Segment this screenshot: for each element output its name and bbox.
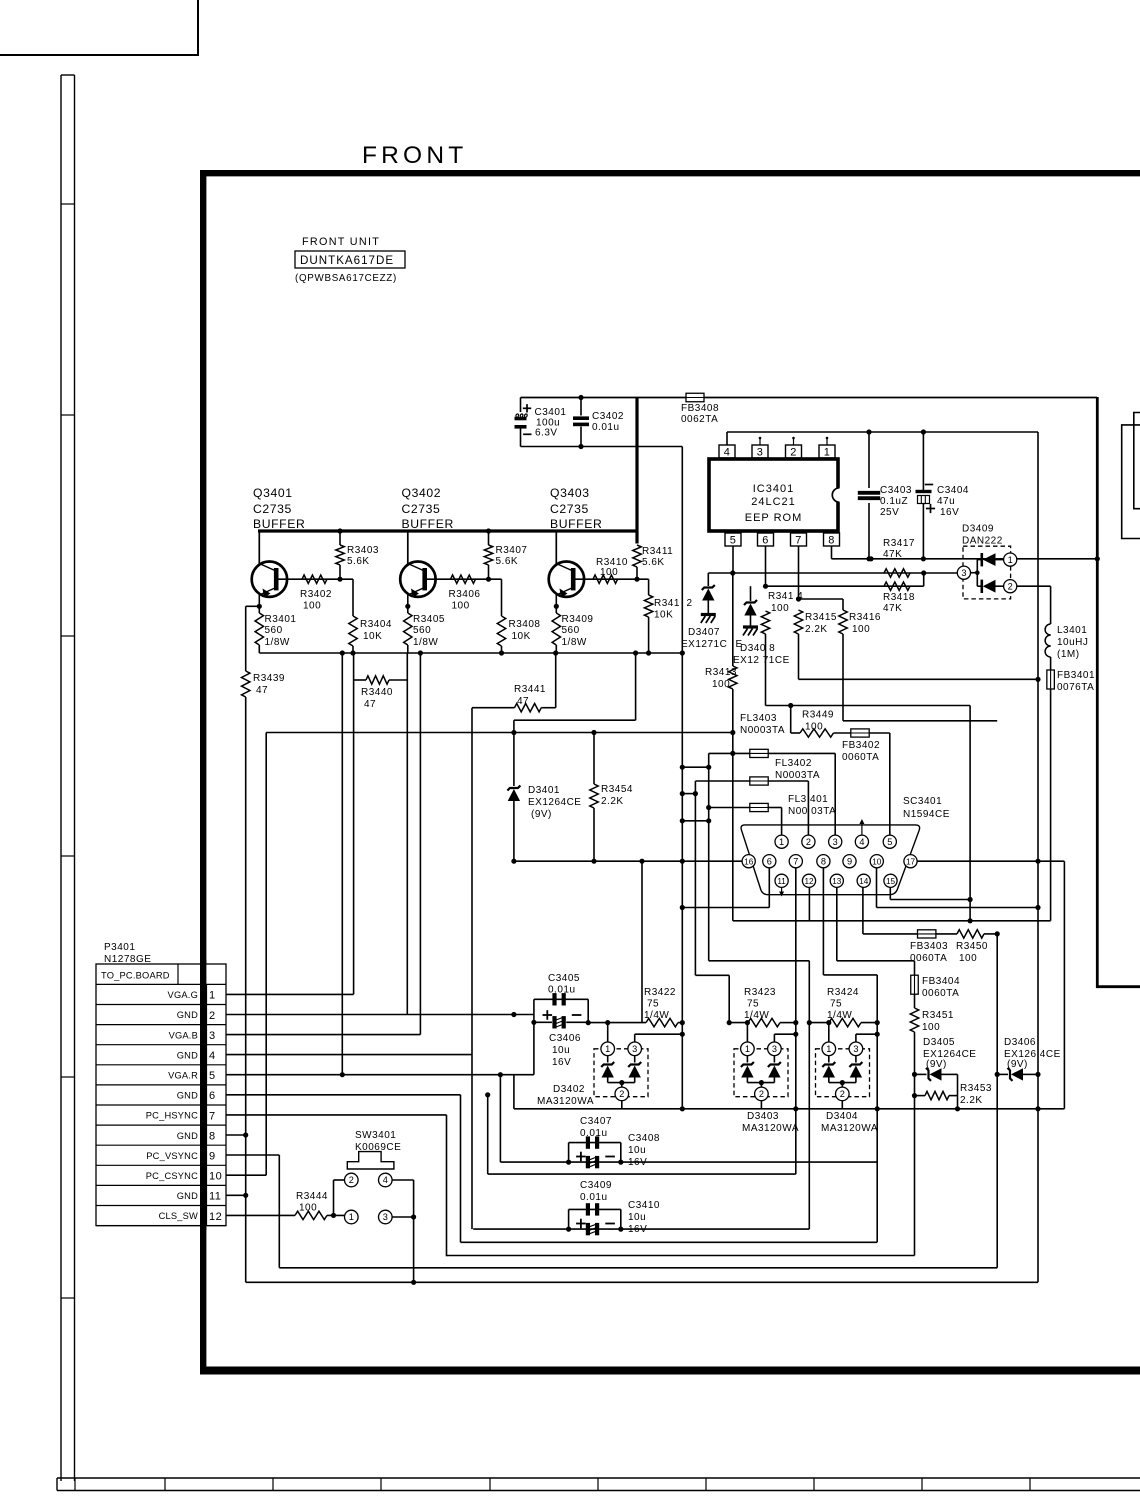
- svg-text:8: 8: [821, 856, 826, 866]
- svg-text:16: 16: [744, 857, 754, 866]
- svg-text:3: 3: [632, 1044, 637, 1054]
- wire R3422 feed x=642: [641, 861, 643, 1022]
- svg-text:CLS_SW: CLS_SW: [159, 1211, 198, 1221]
- svg-text:10K: 10K: [363, 631, 382, 642]
- wire Q3401 emitter tap left: [246, 605, 260, 607]
- wire H-sync line y=861.5 to SC pin16: [514, 860, 742, 862]
- svg-text:FL3 401: FL3 401: [788, 794, 828, 805]
- svg-text:EX12 71CE: EX12 71CE: [733, 655, 790, 666]
- svg-text:0076TA: 0076TA: [1057, 682, 1094, 693]
- wire emitter Q3401: [258, 595, 260, 613]
- SC3401 row3 pin circles 11-15: [775, 874, 788, 887]
- resistor R3402 100 (base series): [302, 575, 327, 583]
- svg-text:15: 15: [886, 877, 896, 886]
- svg-text:4: 4: [724, 447, 731, 459]
- svg-text:(9V): (9V): [1007, 1059, 1028, 1070]
- svg-text:3: 3: [209, 1030, 216, 1042]
- svg-text:C3405: C3405: [548, 973, 580, 984]
- wire ground rail y=1108.8: [514, 1108, 1065, 1110]
- svg-text:12: 12: [804, 877, 814, 886]
- bead FB3404 0060TA: [914, 961, 916, 975]
- capacitor C3403 0.1uZ 25V: [866, 429, 871, 434]
- svg-text:PC_HSYNC: PC_HSYNC: [146, 1111, 198, 1121]
- resistor R3411 5.6K on thick feed: [633, 545, 641, 567]
- wire P3401 pin9 PC_VSYNC loop: [226, 1154, 279, 1156]
- svg-text:2: 2: [790, 447, 797, 459]
- svg-text:7: 7: [795, 535, 802, 547]
- P3401 row pin 2 GND: [96, 1024, 226, 1026]
- svg-text:R3451: R3451: [922, 1010, 954, 1021]
- svg-text:0.01u: 0.01u: [580, 1128, 608, 1139]
- svg-text:9: 9: [847, 856, 852, 866]
- svg-text:D3406: D3406: [1004, 1037, 1036, 1048]
- svg-text:4: 4: [209, 1050, 216, 1062]
- svg-text:13: 13: [832, 877, 842, 886]
- filter FL3402 N0003TA: [682, 793, 695, 795]
- resistor R3408 10K: [501, 579, 503, 616]
- long vertical node x=682.3: [681, 447, 683, 1109]
- resistor R3404 10K: [352, 579, 354, 616]
- svg-text:N1278GE: N1278GE: [104, 954, 151, 965]
- svg-text:8: 8: [828, 535, 835, 547]
- svg-text:2.2K: 2.2K: [805, 624, 828, 635]
- svg-text:100: 100: [712, 679, 730, 690]
- svg-text:R3453: R3453: [960, 1083, 992, 1094]
- switch SW3401 pin2 circle: [345, 1173, 359, 1187]
- svg-text:1: 1: [209, 990, 216, 1002]
- svg-text:10: 10: [209, 1171, 222, 1183]
- svg-text:2: 2: [619, 1089, 624, 1099]
- wire common rail x=1037.7 lower: [1037, 679, 1039, 1282]
- svg-text:FRONT: FRONT: [362, 142, 467, 169]
- P3401 row pin 10 PC_CSYNC: [96, 1184, 226, 1186]
- svg-text:10: 10: [872, 857, 882, 866]
- svg-text:D3401: D3401: [528, 785, 560, 796]
- svg-text:2: 2: [1008, 581, 1013, 591]
- svg-text:GND: GND: [177, 1131, 198, 1141]
- wire P3401 pin11 GND: [226, 1194, 246, 1196]
- wire C3401/C3402 bottom to node: [521, 446, 683, 448]
- wire SC pin12 drop: [808, 887, 810, 920]
- svg-text:8: 8: [209, 1130, 216, 1142]
- capacitor pair C3409 0.01u / C3410 10u 16V: [569, 1208, 621, 1210]
- capacitor C3404 47u 16V (electrolytic): [921, 429, 926, 434]
- svg-text:0.01u: 0.01u: [592, 422, 620, 433]
- svg-text:GND: GND: [177, 1010, 198, 1020]
- resistor R3403 5.6K: [337, 528, 342, 533]
- wire IC pin8 net y=558.8: [831, 546, 833, 559]
- svg-text:R3441: R3441: [514, 684, 546, 695]
- wire emitter Q3403: [555, 595, 557, 613]
- svg-text:C3408: C3408: [628, 1133, 660, 1144]
- wire p2 vertical x=407.3: [406, 653, 408, 1015]
- P3401 row pin 4 GND: [96, 1064, 226, 1066]
- resistor R3414 100: [761, 611, 769, 634]
- wire collector drop Q3401: [258, 531, 260, 564]
- svg-text:560: 560: [413, 625, 431, 636]
- D3409 pin 3 circle: [957, 566, 970, 579]
- wire top power rail y=397: [521, 397, 1098, 399]
- wire P3401 pin12 CLS_SW to R3444: [226, 1214, 295, 1216]
- wire SC pin8 drop to y=974.9: [822, 868, 824, 975]
- svg-text:100: 100: [600, 567, 618, 578]
- svg-text:FRONT UNIT: FRONT UNIT: [302, 236, 380, 248]
- svg-text:10K: 10K: [654, 610, 673, 621]
- svg-text:7: 7: [209, 1110, 216, 1122]
- svg-text:C3403: C3403: [880, 485, 912, 496]
- svg-text:4: 4: [383, 1175, 388, 1185]
- wire D3409 pin2 to L3401: [1017, 585, 1051, 587]
- P3401 row pin 12 CLS_SW: [96, 1225, 226, 1227]
- diode array D3402 MA3120WA: [594, 1049, 648, 1097]
- svg-text:6: 6: [767, 856, 772, 866]
- svg-text:17: 17: [906, 857, 916, 866]
- svg-text:2.2K: 2.2K: [601, 796, 624, 807]
- svg-text:N0003TA: N0003TA: [740, 725, 785, 736]
- wire C3409 pair line y=1229.1: [473, 1228, 809, 1230]
- resistor R3406 100 (base series): [451, 575, 476, 583]
- svg-text:C3404: C3404: [937, 485, 969, 496]
- wire return y=1242.3: [461, 1241, 878, 1243]
- wire p1 vertical x=353.6: [353, 680, 355, 994]
- IC3401 pin 1 box: [819, 445, 835, 458]
- svg-text:2: 2: [687, 598, 693, 609]
- svg-text:3: 3: [772, 1044, 777, 1054]
- svg-text:10u: 10u: [628, 1212, 646, 1223]
- P3401 row pin 11 GND: [96, 1205, 226, 1207]
- wire P3401 pin2 GND: [226, 1014, 534, 1016]
- box DUNTKA617DE: [295, 251, 405, 268]
- svg-text:EX1264CE: EX1264CE: [528, 797, 581, 808]
- wire riser x=473.2 pin4 chain: [471, 1055, 473, 1230]
- svg-text:FB3402: FB3402: [842, 740, 880, 751]
- D3409 internal common node: [971, 572, 978, 574]
- svg-text:D3404: D3404: [826, 1111, 858, 1122]
- svg-text:11: 11: [777, 877, 786, 886]
- resistor R3439 47: [245, 606, 247, 671]
- resistor R3407 5.6K: [486, 528, 491, 533]
- svg-text:11: 11: [209, 1191, 221, 1203]
- wire P3401 pin4 GND: [226, 1054, 472, 1056]
- svg-text:D340 8: D340 8: [740, 643, 775, 654]
- wire riser x=487.7 to y=1174.1: [487, 1095, 489, 1174]
- zener diode D3401 EX1264CE (9V): [513, 733, 515, 787]
- filter FL3401 N0003TA: [682, 820, 708, 822]
- svg-text:BUFFER: BUFFER: [253, 517, 305, 531]
- wire y=920.8 line: [733, 920, 1051, 922]
- wire SC pin6 drop: [768, 868, 770, 908]
- svg-text:MA3120WA: MA3120WA: [537, 1096, 594, 1107]
- svg-text:9: 9: [209, 1150, 216, 1162]
- zener diode D3407 EX1271CE with ground: [707, 573, 709, 586]
- wire y=907.5 line left segment: [682, 907, 769, 909]
- svg-text:2: 2: [806, 837, 811, 847]
- svg-text:0060TA: 0060TA: [910, 953, 947, 964]
- diode array D3404 MA3120WA: [816, 1049, 870, 1097]
- wire base line Q3403: [576, 578, 649, 580]
- svg-text:R3449: R3449: [802, 710, 834, 721]
- svg-text:GND: GND: [177, 1191, 198, 1201]
- resistor R3401 560 1/8W: [255, 613, 263, 645]
- svg-text:100: 100: [922, 1022, 940, 1033]
- IC3401 pin 4 box: [719, 445, 735, 458]
- resistor R3424 75 1/4W: [829, 1018, 861, 1026]
- D3409 diode 1: [977, 559, 981, 561]
- svg-text:R3413: R3413: [705, 667, 737, 678]
- svg-text:0062TA: 0062TA: [681, 414, 718, 425]
- wire SW3401 pin4 to pin3 node: [392, 1179, 414, 1181]
- resistor R3415 2.2K: [794, 610, 802, 634]
- svg-text:1/4W: 1/4W: [744, 1010, 769, 1021]
- resistor R3417 47K: [884, 569, 910, 577]
- svg-text:D3403: D3403: [747, 1111, 779, 1122]
- svg-text:C2735: C2735: [550, 502, 589, 516]
- wire RGB line2 y=1022.6 cell2: [729, 1022, 748, 1024]
- svg-text:FB3401: FB3401: [1057, 670, 1095, 681]
- svg-text:1: 1: [605, 1044, 610, 1054]
- resistor R3412 10K: [648, 579, 650, 595]
- zener diode D3406 EX1264CE (9V): [997, 1073, 1008, 1075]
- P3401 row pin 7 PC_HSYNC: [96, 1124, 226, 1126]
- resistor R3444 100: [295, 1211, 327, 1219]
- svg-text:R3417: R3417: [883, 538, 915, 549]
- D3409 pin 2 circle: [1004, 580, 1017, 593]
- wire R3414 bottom rail y=705.5: [766, 705, 971, 707]
- svg-text:(1M): (1M): [1057, 649, 1080, 660]
- svg-text:6.3V: 6.3V: [535, 428, 558, 439]
- resistor R3409 560 1/8W: [552, 613, 560, 645]
- D3409 diode 2: [977, 585, 981, 587]
- diode array D3403 MA3120WA: [734, 1049, 788, 1097]
- svg-text:VGA.R: VGA.R: [168, 1070, 198, 1080]
- IC3401 pin 6 box: [758, 533, 774, 546]
- svg-text:6: 6: [209, 1090, 216, 1102]
- switch SW3401 pin1 circle: [345, 1210, 359, 1224]
- svg-text:2: 2: [840, 1089, 845, 1099]
- wire collector drop Q3403: [555, 531, 557, 564]
- wire R3422 gnd node dots: [680, 1032, 685, 1037]
- wire rail to D3401 jog: [635, 653, 637, 720]
- thick feed to buffer bus: [635, 398, 638, 544]
- svg-text:7: 7: [793, 856, 798, 866]
- svg-text:Q3401: Q3401: [253, 486, 293, 500]
- svg-text:16V: 16V: [552, 1057, 571, 1068]
- svg-text:5.6K: 5.6K: [347, 556, 370, 567]
- svg-text:5: 5: [209, 1070, 216, 1082]
- svg-text:FB3408: FB3408: [681, 403, 719, 414]
- svg-text:14: 14: [859, 877, 869, 886]
- svg-text:47K: 47K: [883, 603, 902, 614]
- svg-text:3: 3: [833, 837, 838, 847]
- transistor Q3403 symbol: [549, 562, 584, 597]
- resistor R3453 2.2K: [915, 1095, 926, 1097]
- IC3401 pin 5 box: [725, 533, 741, 546]
- SC3401 row1 pin circles 1-5: [775, 835, 788, 848]
- right-edge thick power rail corner: [1097, 397, 1140, 987]
- filter FL3403 N0003TA: [682, 766, 708, 768]
- svg-text:75: 75: [647, 999, 659, 1010]
- bottom border ruler band: [57, 1477, 1140, 1479]
- svg-text:1: 1: [824, 447, 831, 459]
- resistor R3405 560 1/8W: [404, 613, 412, 645]
- svg-text:IC3401: IC3401: [753, 483, 794, 495]
- main border thick line over table: [200, 960, 206, 1230]
- main schematic border (thick): [200, 170, 206, 1374]
- svg-text:0.1uZ: 0.1uZ: [880, 496, 908, 507]
- svg-text:75: 75: [830, 999, 842, 1010]
- SC3401 row2 pin circles 16 6 7 8 9 10 17: [742, 855, 755, 868]
- svg-text:R3405: R3405: [413, 614, 445, 625]
- svg-text:16V: 16V: [940, 507, 959, 518]
- svg-text:EEP ROM: EEP ROM: [745, 512, 803, 524]
- P3401 row pin 3 VGA.B: [96, 1044, 226, 1046]
- svg-text:GND: GND: [177, 1050, 198, 1060]
- svg-text:0.01u: 0.01u: [580, 1192, 608, 1203]
- svg-text:10u: 10u: [552, 1045, 570, 1056]
- capacitor pair C3407 0.01u / C3408 10u 16V: [569, 1142, 621, 1144]
- resistor R3454 2.2K: [593, 733, 595, 785]
- svg-text:(QPWBSA617CEZZ): (QPWBSA617CEZZ): [295, 273, 397, 284]
- svg-text:5: 5: [730, 535, 737, 547]
- SC3401 pin 4 shield tick: [861, 822, 863, 835]
- resistor R3441 47: [472, 707, 515, 709]
- svg-text:47: 47: [364, 699, 376, 710]
- bead FB3403 0060TA and resistor R3450 100: [863, 933, 917, 935]
- svg-text:Q3403: Q3403: [550, 486, 590, 500]
- svg-text:1/4W: 1/4W: [644, 1010, 669, 1021]
- D3409 pin 1 circle: [1004, 553, 1017, 566]
- wire SC pin10 drop: [876, 868, 878, 908]
- svg-text:C3402: C3402: [592, 411, 624, 422]
- svg-text:75: 75: [747, 999, 759, 1010]
- wire return y=1255.5: [447, 1255, 915, 1257]
- svg-text:R3440: R3440: [361, 687, 393, 698]
- svg-text:47K: 47K: [883, 549, 902, 560]
- wire RGB line1 y=1022.6: [588, 1022, 646, 1024]
- P3401 row pin 6 GND: [96, 1104, 226, 1106]
- svg-text:2.2K: 2.2K: [960, 1095, 983, 1106]
- wire R3415 bottom rail y=679.3: [799, 678, 1039, 680]
- resistor R3422 75 1/4W: [646, 1018, 678, 1026]
- svg-text:0060TA: 0060TA: [922, 988, 959, 999]
- svg-text:L3401: L3401: [1057, 625, 1087, 636]
- svg-text:EX1271C: EX1271C: [681, 639, 727, 650]
- svg-text:MA3120WA: MA3120WA: [821, 1123, 878, 1134]
- svg-text:C3410: C3410: [628, 1200, 660, 1211]
- svg-text:DAN222: DAN222: [962, 536, 1003, 547]
- resistor R3451 100: [910, 1008, 918, 1032]
- wire SW3401 pin3 out: [392, 1216, 414, 1218]
- wire IC pin7 drop x=798.5: [798, 546, 800, 599]
- svg-text:VGA.B: VGA.B: [169, 1030, 198, 1040]
- svg-text:C3407: C3407: [580, 1116, 612, 1127]
- svg-text:1/4W: 1/4W: [827, 1010, 852, 1021]
- svg-text:N0003TA: N0003TA: [775, 770, 820, 781]
- svg-text:N1594CE: N1594CE: [903, 809, 950, 820]
- svg-text:FL3402: FL3402: [775, 758, 812, 769]
- wire CSYNC line y=732.5 from P3401 pin10: [266, 732, 733, 734]
- svg-text:100: 100: [805, 722, 823, 733]
- left border ruler column: [60, 75, 62, 1481]
- bottom ruler tick marks: [74, 1478, 76, 1491]
- wire VCC rail y=432 to right corner: [727, 431, 1038, 433]
- svg-text:1: 1: [349, 1212, 354, 1222]
- svg-text:10K: 10K: [512, 631, 531, 642]
- svg-text:(9V): (9V): [926, 1059, 947, 1070]
- diode pack D3409 DAN222 dashed box: [963, 546, 1011, 599]
- inductor L3401 10uHJ (1M): [1045, 624, 1050, 635]
- no-connect ticks above pins 3 2 1: [759, 439, 761, 445]
- wire SW3401 pin1-pin2 link: [334, 1179, 345, 1181]
- svg-text:10u: 10u: [628, 1145, 646, 1156]
- capacitor C3401 (electrolytic 100u 6.3V): [520, 398, 522, 413]
- svg-text:3: 3: [383, 1212, 388, 1222]
- svg-text:FB3404: FB3404: [922, 976, 960, 987]
- svg-text:R3418: R3418: [883, 592, 915, 603]
- svg-text:1/8W: 1/8W: [265, 637, 290, 648]
- wire R3414 net drop x=970.1: [969, 706, 971, 921]
- wire collector drop Q3402: [407, 531, 409, 564]
- svg-text:5.6K: 5.6K: [642, 557, 665, 568]
- resistor R3440 47: [353, 653, 355, 680]
- svg-text:GND: GND: [177, 1091, 198, 1101]
- svg-text:PC_CSYNC: PC_CSYNC: [146, 1171, 198, 1181]
- svg-text:3: 3: [961, 568, 966, 578]
- resistor R3410 100 (base series): [593, 575, 618, 583]
- capacitor C3402 (0.01u): [578, 395, 583, 400]
- resistor R3413 100: [732, 573, 734, 666]
- svg-text:D3407: D3407: [688, 627, 720, 638]
- svg-text:R341: R341: [654, 598, 680, 609]
- P3401 row pin 9 PC_VSYNC: [96, 1164, 226, 1166]
- svg-text:C3409: C3409: [580, 1180, 612, 1191]
- wire P3401 pin7 PC_HSYNC loop: [226, 1114, 447, 1116]
- svg-text:R3454: R3454: [601, 784, 633, 795]
- left ruler tick marks: [61, 203, 75, 205]
- wire D3406 feed x=997.2: [996, 934, 998, 1075]
- wire R3423 feed jog: [695, 974, 729, 976]
- svg-text:R3423: R3423: [744, 987, 776, 998]
- svg-text:SC3401: SC3401: [903, 796, 942, 807]
- zener diode D3408 EX1271CE with ground: [750, 586, 752, 601]
- svg-text:R3408: R3408: [509, 619, 541, 630]
- wire SC pin14 drop to FB3403: [862, 887, 864, 934]
- switch SW3401 pin4 circle: [379, 1173, 393, 1187]
- svg-text:100: 100: [303, 601, 321, 612]
- svg-text:D3402: D3402: [553, 1084, 585, 1095]
- switch SW3401 pin3 circle: [379, 1210, 393, 1224]
- svg-text:6: 6: [762, 535, 769, 547]
- svg-text:1: 1: [779, 837, 784, 847]
- svg-text:R3406: R3406: [449, 589, 481, 600]
- wire ground rail y=653: [259, 652, 682, 654]
- wire base line Q3402: [427, 578, 502, 580]
- capacitor pair C3405 0.01u / C3406 10u 16V: [534, 998, 588, 1000]
- svg-text:5: 5: [887, 837, 892, 847]
- SC3401 pin 11 shield stub: [781, 887, 783, 893]
- IC3401 pin 3 box: [752, 445, 768, 458]
- wire y=1174.1 return: [488, 1173, 796, 1175]
- wire P3401 pin10 PC_CSYNC riser: [226, 1174, 266, 1176]
- svg-text:R3407: R3407: [496, 545, 528, 556]
- connector P3401 table: [96, 964, 226, 1226]
- svg-text:P3401: P3401: [104, 942, 135, 953]
- wire SC pin17 net to right: [917, 860, 1064, 862]
- svg-text:3: 3: [757, 447, 764, 459]
- svg-text:2: 2: [759, 1089, 764, 1099]
- svg-text:4: 4: [859, 837, 864, 847]
- svg-text:R3401: R3401: [265, 614, 297, 625]
